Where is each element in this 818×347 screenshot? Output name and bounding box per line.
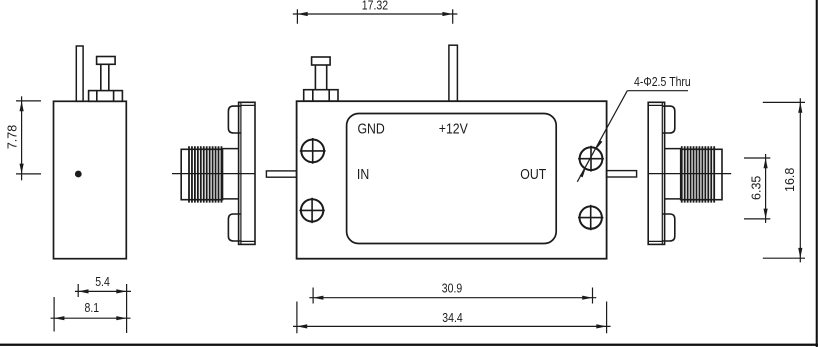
dimension 7.78 line: [21, 96, 23, 180]
module body (side view): [54, 101, 127, 258]
svg-text:4-Φ2.5 Thru: 4-Φ2.5 Thru: [634, 76, 691, 89]
flange inner vertical edge: [240, 102, 242, 244]
dimension 8.1 extension line: [53, 297, 55, 332]
flange inner horizontal edges: [241, 105, 255, 241]
screw hole top-right: [578, 146, 604, 172]
feedthrough capacitor (top view) base: [304, 90, 338, 102]
bottom mounting tab (right): [662, 214, 675, 241]
svg-text:30.9: 30.9: [442, 283, 462, 296]
connector flange plate (right): [648, 102, 664, 244]
dimension 34.4 extension lines: [297, 302, 607, 334]
dimension 17.32 extension lines: [297, 9, 452, 23]
leader arrowheads at screw hole: [580, 140, 603, 177]
flange inner horizontal edges (right): [648, 105, 662, 241]
DC pin on top of box: [449, 45, 458, 101]
connector pin center dot: [75, 171, 82, 178]
thread hatch lines: [189, 146, 221, 202]
dimension 30.9 extension lines: [313, 288, 592, 304]
svg-text:OUT: OUT: [520, 166, 547, 182]
feedthrough capacitor (top view) cap: [312, 57, 331, 65]
feedthrough capacitor (top view) stem: [315, 65, 326, 90]
screw hole bottom-left: [299, 198, 324, 223]
drawing frame bottom border: [0, 344, 818, 346]
dimension 5.4 arrows: [78, 289, 126, 293]
dimension 30.9 arrows: [313, 296, 592, 300]
dimension 17.32 line: [293, 13, 458, 15]
RF pin right (between box and connector): [607, 171, 637, 177]
svg-text:8.1: 8.1: [85, 302, 100, 315]
dimension 30.9 line: [309, 297, 596, 299]
svg-text:IN: IN: [357, 166, 369, 182]
RF pin (side view, thin vertical pin): [76, 46, 83, 101]
dimension 8.1 arrows: [54, 316, 127, 320]
dimension 6.35 arrows: [764, 158, 768, 219]
dimension 8.1 line: [51, 317, 131, 319]
drawing frame right border: [816, 0, 818, 347]
dimension 16.8 arrows: [798, 102, 802, 258]
threaded barrel outline: [181, 149, 222, 199]
inner cavity rounded rectangle: [347, 114, 557, 244]
feedthrough capacitor (side view) base: [89, 91, 123, 102]
dimension 5.4 line: [75, 290, 131, 292]
screw hole bottom-right: [578, 205, 603, 230]
svg-text:5.4: 5.4: [95, 276, 110, 289]
thread hatch lines (right): [682, 146, 714, 202]
bottom mounting tab: [228, 214, 241, 241]
screw hole top-left: [300, 138, 326, 164]
svg-text:16.8: 16.8: [783, 168, 797, 192]
flange inner vertical edge (right): [661, 102, 663, 244]
feedthrough base dividers: [97, 91, 114, 102]
svg-text:34.4: 34.4: [442, 312, 463, 325]
dimension 34.4 arrows: [297, 324, 607, 328]
feedthrough capacitor (side view) stem: [101, 64, 109, 90]
dimension 7.78 arrows: [20, 101, 24, 174]
leader underline: [627, 90, 688, 92]
RF pin left (between connector and box): [266, 171, 296, 177]
main module box: [297, 101, 607, 259]
svg-text:GND: GND: [358, 120, 385, 136]
top mounting tab: [228, 106, 241, 133]
threaded barrel outline (right): [681, 149, 722, 199]
connector neck lines (right): [665, 149, 681, 199]
dimension 5.4 extension lines: [78, 284, 126, 333]
svg-text:17.32: 17.32: [362, 0, 388, 13]
leader diagonal line: [577, 91, 627, 182]
top mounting tab (right): [662, 106, 675, 133]
svg-text:6.35: 6.35: [750, 176, 764, 200]
dimension 17.32 arrows: [297, 12, 452, 16]
connector center line: [172, 173, 255, 175]
connector center line (right): [648, 173, 731, 175]
dimension 16.8 extension lines: [763, 102, 805, 258]
feedthrough capacitor (side view) cap: [97, 57, 116, 65]
connector flange plate: [239, 102, 255, 244]
dimension 34.4 line: [293, 325, 611, 327]
dimension 6.35 line: [765, 154, 767, 223]
feedthrough base dividers (top view): [313, 90, 329, 102]
dimension 7.78 extension lines: [16, 101, 41, 174]
dimension 16.8 line: [799, 98, 801, 262]
dimension 6.35 extension lines: [744, 158, 770, 219]
connector neck lines: [222, 149, 238, 199]
svg-text:7.78: 7.78: [6, 125, 20, 149]
svg-text:+12V: +12V: [439, 120, 469, 136]
